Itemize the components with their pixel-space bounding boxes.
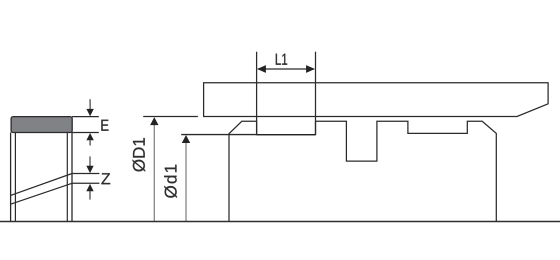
ring outer-right wall bbox=[71, 133, 73, 222]
dimension label OD1 bbox=[133, 138, 146, 172]
dimension Z lower arrow bbox=[86, 184, 93, 200]
seal left wall / L1 left extension line bbox=[256, 52, 258, 135]
ring outer-left wall bbox=[10, 133, 12, 222]
dimension OD1 extension line bbox=[143, 116, 198, 118]
dimension label Z bbox=[101, 173, 110, 184]
dimension Z upper extension line bbox=[72, 173, 99, 175]
dimension label L1 bbox=[276, 54, 287, 65]
dimension Od1 stem bbox=[185, 143, 187, 222]
dimension E lower extension line bbox=[72, 132, 99, 134]
dimension L1 left arrowhead bbox=[257, 65, 266, 73]
seal ring cross-section head (gray profile), left view bbox=[11, 117, 72, 133]
dimension E lower arrow bbox=[86, 133, 93, 146]
dimension L1 line bbox=[258, 68, 314, 70]
ring inner-right wall bbox=[66, 133, 68, 222]
dimension Z upper arrow bbox=[86, 156, 93, 173]
ring inner-left wall bbox=[14, 133, 16, 222]
seal groove bottom emphasized bbox=[257, 134, 316, 136]
dimension Od1 extension line bbox=[181, 134, 256, 136]
dimension label E bbox=[101, 120, 108, 131]
dimension E upper arrow bbox=[86, 99, 93, 116]
seal right wall / L1 right extension line bbox=[315, 52, 317, 135]
rod (long bar with chamfered right end), right view bbox=[204, 83, 548, 117]
dimension E upper extension line bbox=[72, 116, 99, 118]
dimension Z lower extension line bbox=[72, 182, 99, 184]
scarf-cut break line lower bbox=[11, 183, 72, 204]
dimension OD1 stem bbox=[153, 125, 155, 221]
scarf-cut break line upper bbox=[11, 174, 72, 196]
dimension Od1 arrowhead bbox=[182, 135, 190, 143]
dimension OD1 arrowhead bbox=[150, 117, 158, 125]
housing block with seal groove and notches bbox=[229, 121, 496, 221]
dimension L1 right arrowhead bbox=[306, 65, 315, 73]
centerline / baseline bbox=[0, 221, 560, 223]
dimension label Od1 bbox=[164, 165, 177, 198]
